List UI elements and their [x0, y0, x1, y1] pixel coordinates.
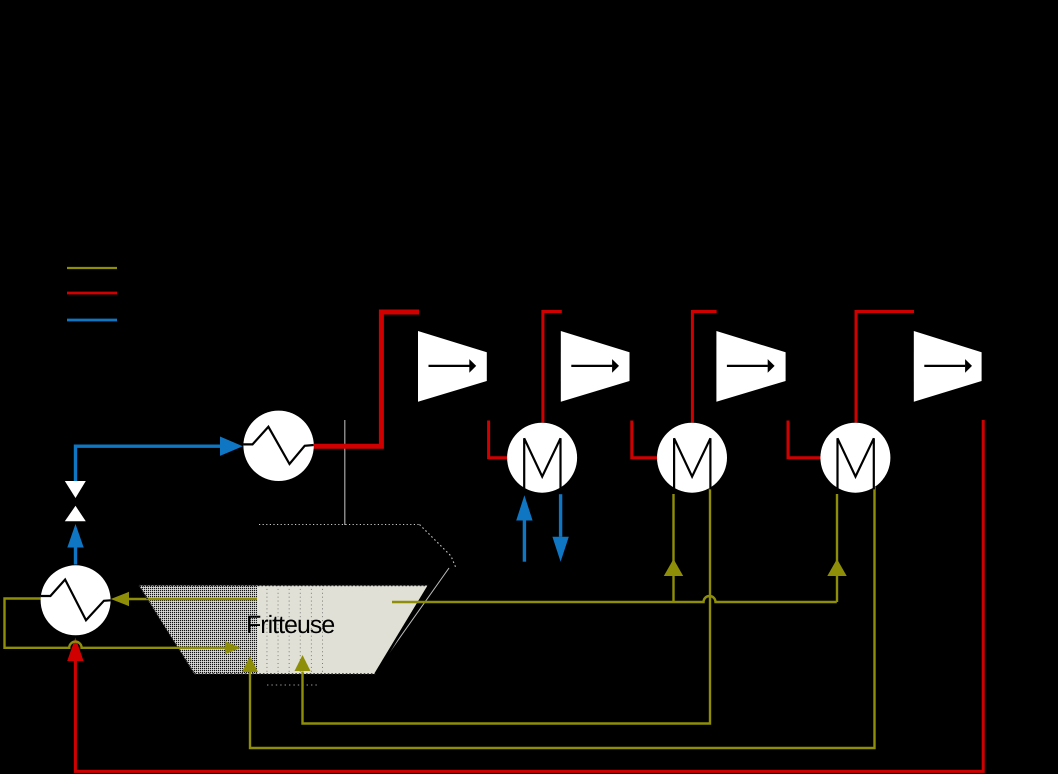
fan 4	[914, 331, 982, 402]
fritteuse dotted bottom edge	[195, 673, 376, 675]
heat exchanger HX1	[243, 411, 313, 481]
fritteuse right edge	[376, 586, 430, 675]
fritteuse tub fill dense part	[139, 586, 257, 675]
wire red elbow M3	[788, 421, 821, 458]
wire red HX1 to fan1	[313, 312, 419, 446]
hood dotted top line	[259, 524, 420, 526]
wire red return fan4 to HX2	[75, 420, 983, 771]
wire oil M3 to fritteuse bottom	[250, 487, 875, 748]
motor M1	[507, 423, 577, 493]
wire blue HX2 to valve	[74, 548, 77, 565]
fritteuse dense stipple region	[139, 586, 257, 675]
fan 3	[716, 331, 785, 402]
valve	[65, 481, 86, 521]
fritteuse light stipple columns	[257, 586, 331, 675]
wire oil manifold to M3	[836, 494, 838, 602]
motor M3	[820, 423, 890, 493]
wire oil M2 to fritteuse bottom	[303, 487, 711, 724]
fritteuse dotted top edge	[139, 585, 429, 587]
hood right diagonal line	[376, 568, 450, 672]
wire oil manifold with hop	[392, 596, 837, 602]
wire blue valve to HX1	[76, 446, 221, 481]
fan 2	[561, 331, 630, 402]
legend blue line	[67, 319, 117, 322]
fan 1	[418, 331, 487, 402]
wire blue down arrow M1	[559, 494, 562, 537]
label Fritteuse	[248, 615, 334, 633]
wire red elbow M2	[632, 421, 658, 458]
wire oil manifold to M2	[672, 494, 674, 602]
fritteuse dotted left edge	[139, 586, 195, 675]
fritteuse tub fill light part	[257, 586, 429, 675]
motor M2	[657, 423, 727, 493]
dotted fragment below tub	[267, 684, 317, 686]
wire blue up arrow M1	[523, 521, 526, 562]
hood dotted diagonal	[420, 525, 457, 569]
legend red line	[67, 292, 117, 295]
wire red feed M1	[543, 312, 562, 423]
wire red feed M2	[692, 312, 716, 423]
wire oil HX2 out to fritteuse with hop over red	[5, 599, 226, 648]
wire red feed M3	[856, 312, 914, 423]
heat exchanger HX2	[41, 565, 111, 635]
hood thin vertical line	[344, 420, 346, 525]
legend oil line	[67, 267, 117, 269]
wire oil to HX2	[129, 598, 258, 600]
wire red elbow M1	[489, 421, 508, 458]
